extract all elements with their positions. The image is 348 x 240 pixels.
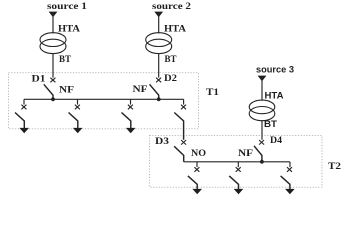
T2 feeder3 switch blade — [281, 176, 290, 190]
tie contact cross — [181, 105, 186, 110]
T1 feeder3 switch blade — [122, 113, 131, 129]
T2 feeder1 switch blade — [188, 176, 197, 190]
wire T1 feeder2 drop — [77, 99, 79, 104]
wire T1 tie drop — [183, 99, 185, 104]
svg-text:NF: NF — [133, 84, 149, 94]
busbar box T1 — [9, 73, 199, 129]
wire T2 feeder3 drop — [289, 162, 291, 167]
svg-text:BT: BT — [59, 54, 71, 64]
wire TR1 to D1 — [52, 53, 54, 77]
svg-text:HTA: HTA — [265, 91, 285, 101]
busbar box T2 — [150, 135, 323, 187]
svg-text:source 3: source 3 — [256, 65, 294, 75]
wire source3 to TR3 — [261, 76, 263, 101]
switch D3 blade — [174, 146, 184, 162]
wire T2 feeder1 drop — [196, 162, 198, 167]
svg-text:NF: NF — [238, 148, 254, 158]
wire bus T2 — [184, 161, 290, 163]
T1 feeder1 contact cross — [21, 105, 26, 110]
T2 feeder2 contact cross — [236, 167, 241, 172]
svg-text:T2: T2 — [328, 161, 342, 171]
switch D4 contact cross — [259, 140, 264, 145]
wire source1 to TR1 — [52, 12, 54, 34]
node D1 bus junction — [51, 97, 55, 101]
wire bus T1 — [24, 98, 184, 100]
wire TR2 to D2 — [158, 53, 160, 77]
switch D3 contact cross — [181, 140, 186, 145]
transformer TR2 — [146, 33, 172, 54]
switch D1 contact cross — [50, 78, 55, 83]
svg-text:NO: NO — [191, 148, 206, 158]
T2 feeder2 arrow — [234, 189, 244, 194]
switch D1 blade — [44, 84, 53, 99]
svg-text:D2: D2 — [164, 73, 178, 83]
T1 feeder1 switch blade — [15, 113, 24, 129]
T1 feeder3 contact cross — [128, 105, 133, 110]
svg-text:source 2: source 2 — [152, 1, 192, 11]
svg-text:NF: NF — [59, 85, 75, 95]
switch D2 blade — [150, 84, 159, 99]
node D2 bus junction — [157, 97, 161, 101]
switch D4 blade — [254, 146, 262, 162]
source 3 arrow — [258, 76, 267, 82]
svg-text:HTA: HTA — [164, 24, 187, 34]
svg-text:D3: D3 — [155, 136, 170, 146]
svg-text:D1: D1 — [32, 74, 47, 84]
wire T1 feeder3 drop — [130, 99, 132, 104]
T2 feeder3 contact cross — [287, 167, 292, 172]
wire source2 to TR2 — [158, 12, 160, 34]
source 1 arrow — [49, 12, 58, 18]
tie switch blade — [174, 113, 183, 140]
T2 feeder2 switch blade — [229, 176, 238, 190]
transformer TR3 — [249, 100, 275, 121]
T1 feeder2 contact cross — [75, 105, 80, 110]
T1 feeder1 arrow — [19, 128, 29, 133]
svg-text:source 1: source 1 — [47, 1, 88, 11]
svg-text:BT: BT — [264, 119, 278, 129]
svg-text:BT: BT — [165, 54, 177, 64]
svg-text:D4: D4 — [270, 135, 283, 145]
svg-text:T1: T1 — [206, 87, 220, 97]
T1 feeder2 arrow — [73, 128, 83, 133]
svg-text:HTA: HTA — [58, 24, 81, 34]
node D4 bus junction — [260, 160, 264, 164]
source 2 arrow — [154, 12, 163, 18]
T2 feeder3 arrow — [285, 189, 295, 194]
T2 feeder1 arrow — [192, 189, 202, 194]
switch D2 contact cross — [156, 78, 161, 83]
T1 feeder3 arrow — [126, 128, 136, 133]
transformer TR1 — [40, 33, 66, 54]
wire T2 feeder2 drop — [237, 162, 239, 167]
T1 feeder2 switch blade — [69, 113, 78, 129]
wire TR3 to D4 — [261, 121, 263, 140]
wire T1 feeder1 drop — [23, 99, 25, 104]
T2 feeder1 contact cross — [194, 167, 199, 172]
